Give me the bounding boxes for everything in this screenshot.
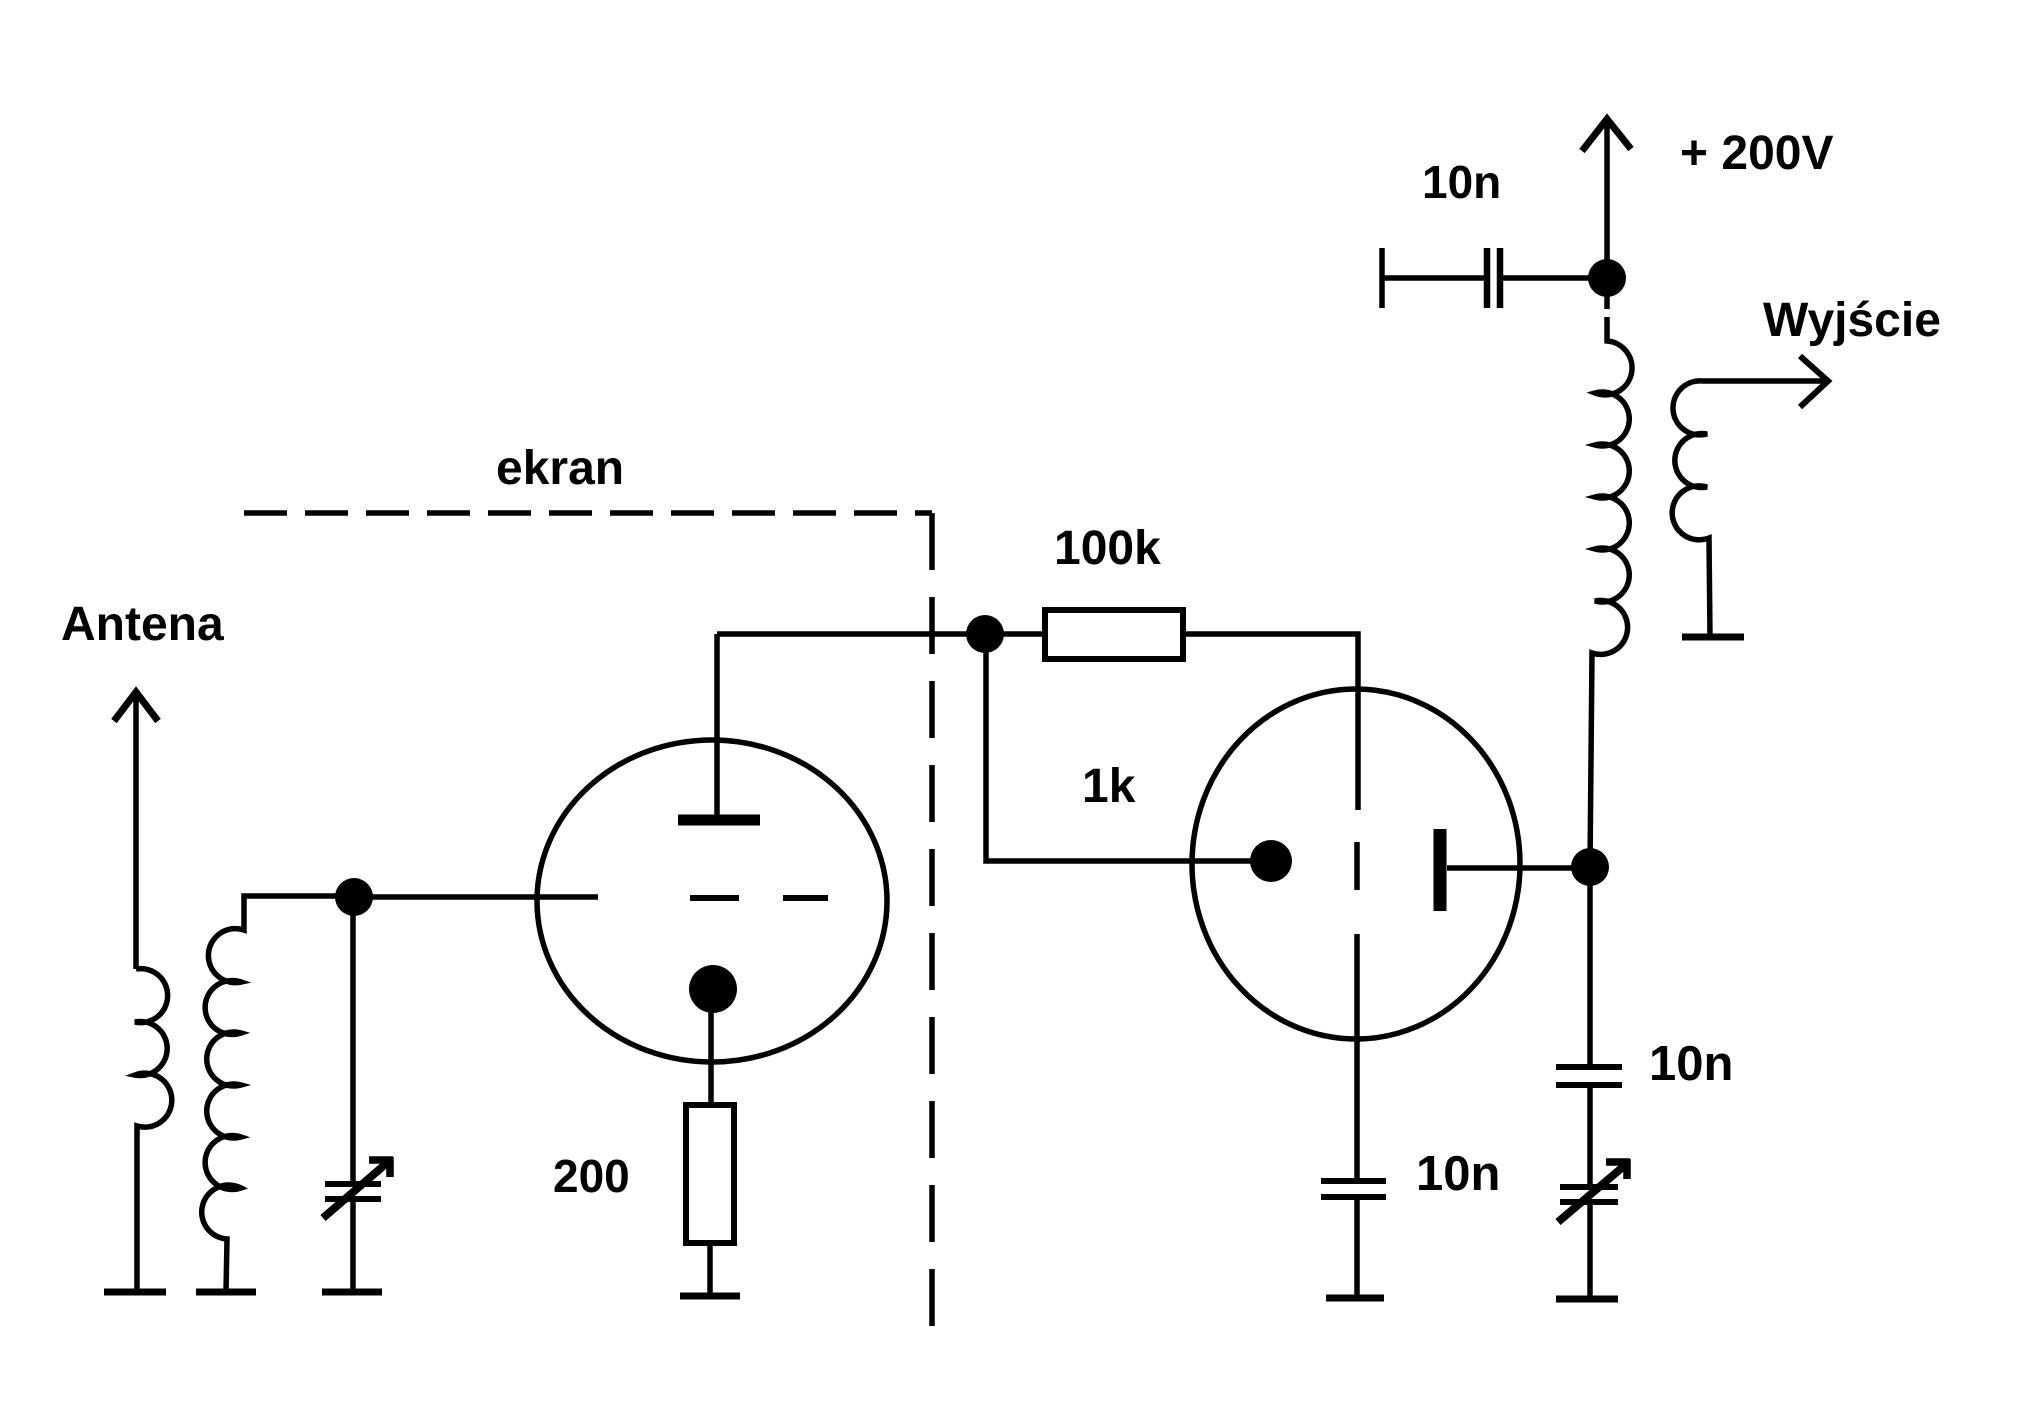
svg-text:10n: 10n — [1416, 1147, 1500, 1201]
svg-text:100k: 100k — [1054, 522, 1161, 575]
svg-text:+ 200V: + 200V — [1680, 127, 1833, 180]
svg-text:200: 200 — [553, 1150, 630, 1202]
svg-text:ekran: ekran — [496, 442, 624, 495]
svg-text:10n: 10n — [1649, 1037, 1733, 1091]
svg-text:10n: 10n — [1422, 156, 1501, 208]
svg-text:Antena: Antena — [61, 598, 224, 651]
svg-text:1k: 1k — [1082, 760, 1136, 813]
svg-text:Wyjście: Wyjście — [1763, 294, 1941, 347]
